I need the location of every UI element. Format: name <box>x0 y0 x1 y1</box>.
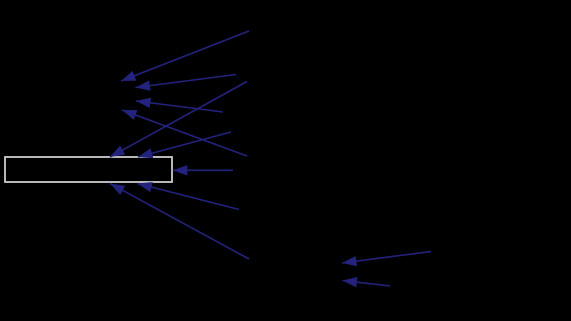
answer box <box>5 157 172 182</box>
wire arrow 4 <box>122 110 247 156</box>
wire arrow 1 <box>121 31 249 81</box>
wire arrow 5 <box>110 82 247 158</box>
wire arrow 9 <box>138 184 240 210</box>
wire arrow 3 <box>136 101 223 112</box>
wire arrow 2 <box>136 75 237 88</box>
wire arrow 10 <box>342 252 431 264</box>
wire arrow 7 <box>173 169 233 171</box>
wire arrow 11 <box>343 281 391 287</box>
wire arrow 8 <box>110 184 249 260</box>
wire arrow 6 <box>138 132 231 157</box>
